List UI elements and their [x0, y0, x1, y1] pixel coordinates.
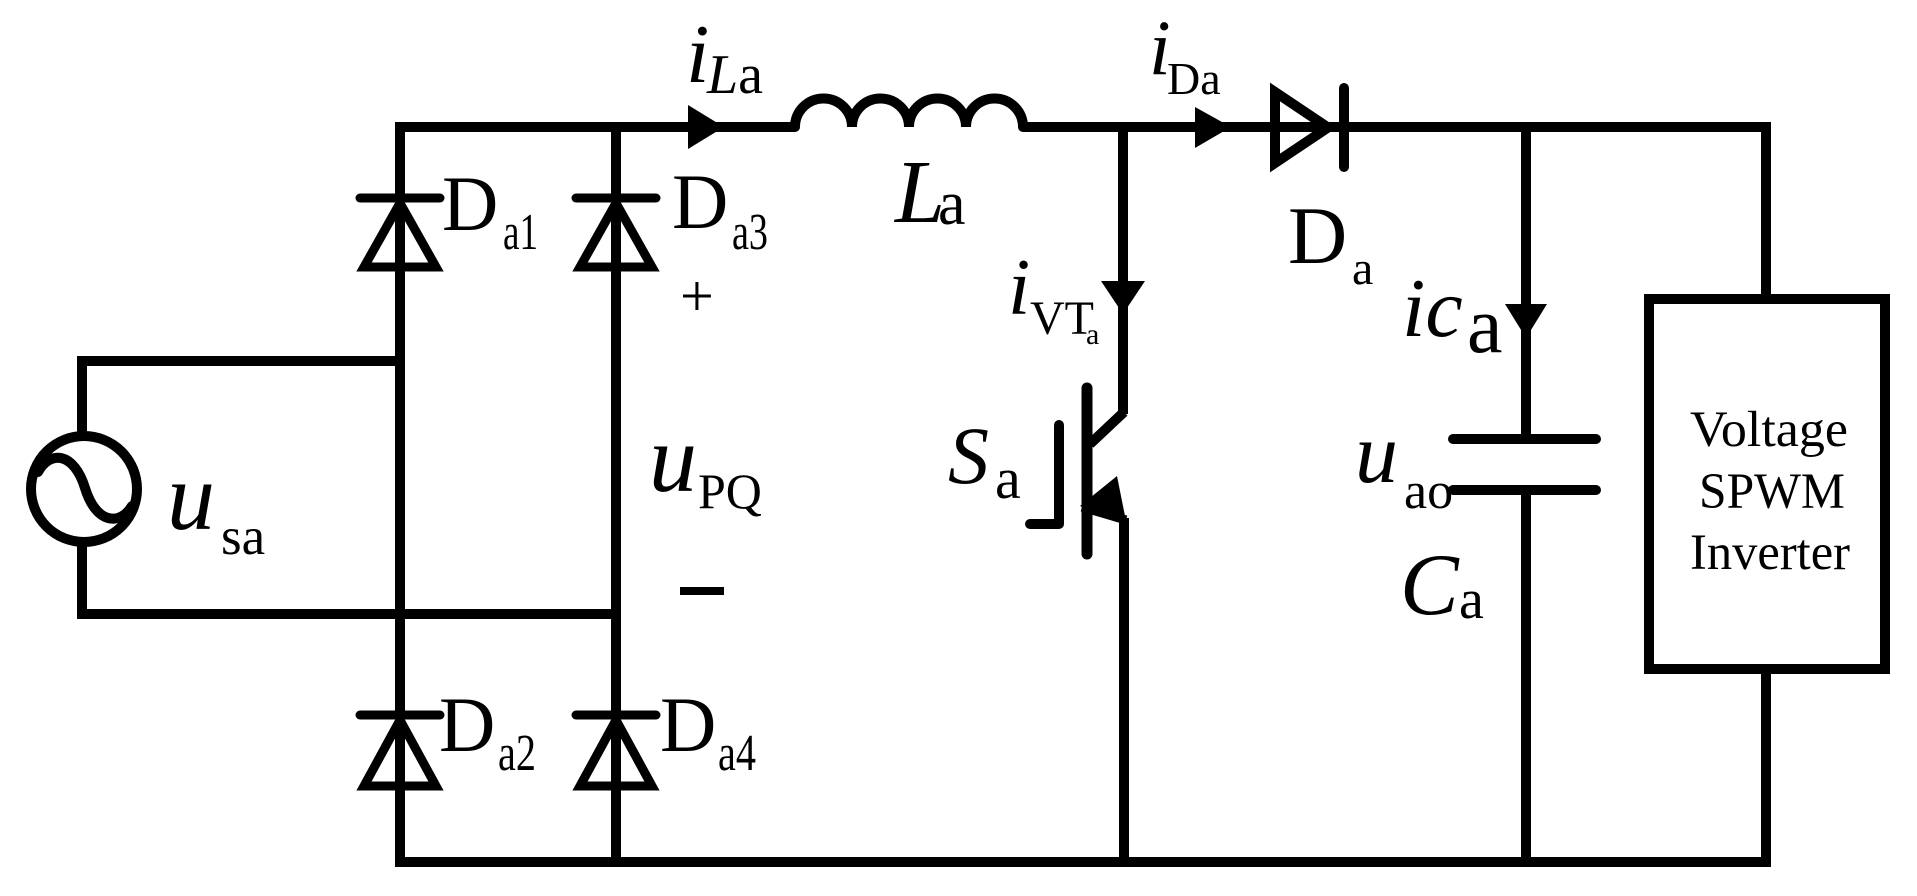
capacitor Ca bottom lead: [1521, 495, 1531, 862]
wire: ac source top lead: [82, 361, 400, 434]
diode Da2 triangle: [364, 720, 436, 786]
svg-text:a: a: [995, 446, 1021, 511]
svg-text:SPWM: SPWM: [1699, 464, 1845, 520]
wire: ac source bottom lead: [82, 544, 613, 614]
arrow i_Da: [1195, 107, 1231, 148]
svg-text:D: D: [672, 158, 728, 245]
capacitor Ca bottom plate: [1453, 485, 1596, 495]
wire: top rail left + left bridge leg + bottom rail + bottom-right riser: [400, 127, 1766, 862]
svg-text:D: D: [660, 681, 716, 768]
svg-text:u: u: [1355, 405, 1398, 501]
inverter box: [1649, 299, 1885, 669]
svg-text:C: C: [1400, 537, 1460, 634]
svg-text:a2: a2: [498, 725, 536, 782]
svg-text:a3: a3: [732, 204, 768, 261]
inductor La coil: [795, 99, 1023, 127]
svg-text:sa: sa: [221, 508, 265, 566]
wire: top rail right + top-right riser to inverter box: [1023, 127, 1766, 294]
arrow ic_a: [1505, 304, 1547, 338]
svg-text:D: D: [442, 160, 498, 247]
diode Da3 bar: [576, 194, 656, 203]
svg-text:a: a: [1467, 282, 1503, 370]
diode Da4 bar: [576, 711, 656, 720]
svg-text:+: +: [680, 263, 714, 329]
svg-text:a: a: [1459, 569, 1484, 631]
svg-text:La: La: [706, 44, 763, 106]
diode Da1 bar: [360, 194, 440, 203]
svg-text:VT: VT: [1030, 292, 1094, 345]
svg-text:D: D: [1288, 190, 1347, 281]
boost diode Da triangle: [1275, 92, 1328, 163]
svg-text:i: i: [686, 8, 709, 101]
svg-text:a: a: [938, 170, 966, 238]
svg-text:a1: a1: [503, 204, 538, 261]
svg-text:Voltage: Voltage: [1690, 402, 1848, 458]
svg-text:S: S: [948, 410, 989, 501]
igbt Sa collector diagonal: [1090, 412, 1124, 444]
arrow i_La: [688, 105, 724, 149]
igbt Sa emitter diagonal: [1082, 507, 1126, 520]
igbt Sa emitter lead: [1119, 518, 1129, 862]
igbt Sa channel bar: [1082, 388, 1093, 554]
diode Da1 triangle: [364, 203, 436, 267]
svg-text:i: i: [1008, 244, 1030, 332]
svg-text:ic: ic: [1402, 262, 1463, 355]
diode Da4 triangle: [580, 720, 652, 786]
svg-text:a: a: [1352, 242, 1373, 295]
capacitor Ca top lead: [1521, 127, 1531, 434]
capacitor Ca top plate: [1453, 434, 1596, 444]
svg-text:D: D: [439, 681, 495, 768]
svg-text:a: a: [1086, 318, 1099, 351]
diode Da3 triangle: [580, 203, 652, 267]
svg-text:Da: Da: [1167, 53, 1221, 104]
boost diode Da bar: [1339, 88, 1349, 167]
diode Da2 bar: [360, 711, 440, 720]
ac source u_sa circle: [31, 436, 137, 542]
svg-text:a4: a4: [718, 725, 756, 782]
wire: right bridge leg: [611, 127, 621, 862]
arrow i_VTa: [1101, 281, 1145, 314]
svg-text:u: u: [649, 405, 697, 512]
ac source sine wave: [38, 458, 132, 519]
svg-text:u: u: [167, 443, 215, 550]
igbt Sa emitter arrowhead: [1080, 476, 1126, 521]
igbt Sa collector lead: [1118, 127, 1128, 414]
igbt Sa gate bar and lead: [1030, 425, 1059, 524]
svg-text:PQ: PQ: [698, 463, 762, 519]
svg-text:ao: ao: [1404, 463, 1453, 520]
svg-text:Inverter: Inverter: [1690, 525, 1850, 581]
label minus sign of u_PQ: [680, 587, 724, 595]
